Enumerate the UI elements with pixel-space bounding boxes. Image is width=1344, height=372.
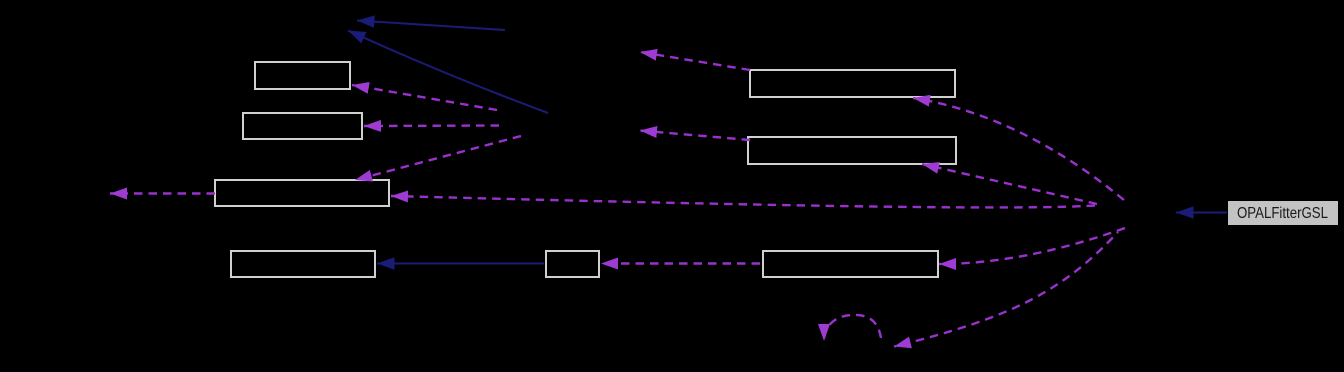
usage edge purple B7 to mid node [640, 131, 750, 141]
node B1 (top-left small box) [255, 62, 350, 89]
svg-text:OPALFitterGSL: OPALFitterGSL [1237, 205, 1328, 222]
node B2 [243, 113, 362, 139]
node B7 [748, 137, 956, 164]
usage edge purple into B3 top [355, 136, 521, 180]
node B5 (small box bottom middle) [546, 251, 599, 277]
node B4 (bottom-left box) [231, 251, 375, 277]
usage edge purple hub to B8 right [939, 228, 1125, 264]
usage edge purple into B1 [352, 85, 497, 110]
usage edge purple hub to B7 bottom-right [922, 164, 1097, 204]
inheritance edge blue from OPALFitterGSL [1176, 212, 1227, 214]
inheritance edge blue top 1 [357, 21, 505, 31]
self-loop edge purple on bottom node [824, 315, 881, 341]
usage edge purple into B2 [364, 124, 499, 127]
usage edge purple hub to B6 bottom-right [913, 98, 1124, 200]
node B8 (bottom wide box) [763, 251, 938, 277]
usage edge blue B5 to B4 [377, 263, 544, 265]
usage edge purple B8 to B5 [601, 262, 760, 264]
node B6 (top-right wide box) [750, 70, 955, 97]
node OPALFitterGSL (gray filled) [1228, 201, 1338, 225]
usage edge purple hub to B3 right (long) [391, 196, 1095, 207]
usage edge purple B6 to mid node [640, 52, 750, 70]
inheritance edge blue top 2 (curved) [348, 31, 548, 114]
node B3 (wide box mid-left) [215, 180, 389, 206]
usage edge purple B3 to far-left node [110, 192, 215, 194]
usage edge purple hub to bottom node [894, 232, 1118, 347]
